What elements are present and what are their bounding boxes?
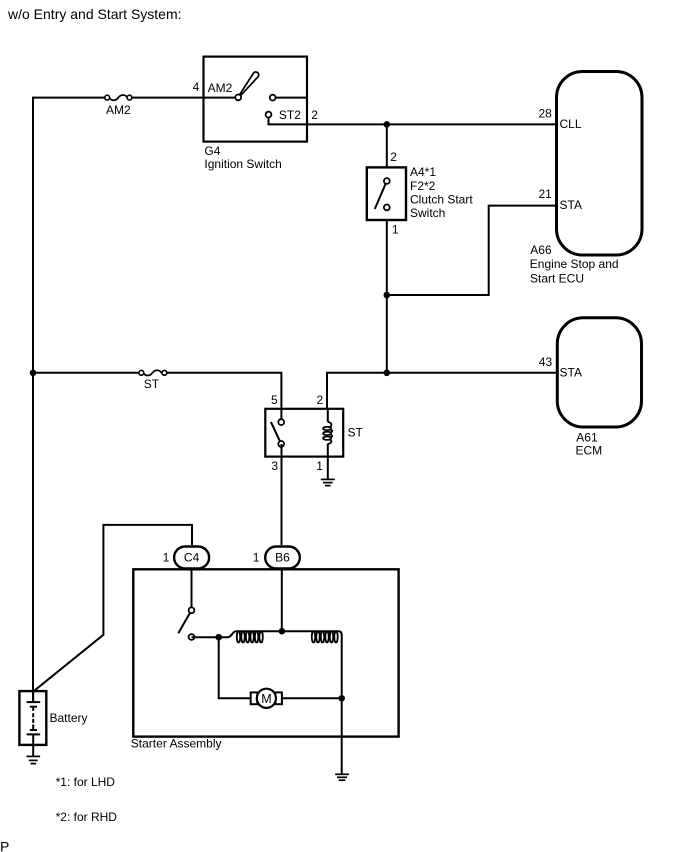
ground (battery): [27, 756, 41, 763]
wire: starter switch to coil junction: [192, 631, 237, 637]
starter switch lever: [178, 610, 191, 633]
svg-text:1: 1: [316, 459, 323, 473]
svg-text:Ignition Switch: Ignition Switch: [204, 157, 281, 171]
svg-text:ECM: ECM: [576, 443, 603, 457]
relay coil feed wire: [327, 409, 329, 422]
svg-text:B6: B6: [275, 551, 290, 565]
svg-text:*1: for LHD: *1: for LHD: [56, 775, 116, 789]
battery: [19, 691, 46, 745]
contact middle: [270, 95, 276, 101]
ground (relay pin1): [321, 479, 335, 485]
svg-text:Start ECU: Start ECU: [530, 271, 584, 285]
contact bottom: [384, 205, 390, 211]
svg-text:P: P: [0, 839, 9, 852]
wire: G4 middle contact to box right edge: [273, 97, 307, 99]
relay lever: [271, 422, 281, 444]
node: junction CLL wire / clutch switch: [384, 121, 391, 128]
svg-text:1: 1: [253, 551, 260, 565]
relay contact pin5: [278, 419, 284, 425]
svg-text:4: 4: [193, 80, 200, 94]
svg-text:28: 28: [539, 106, 553, 120]
svg-text:A61: A61: [576, 430, 598, 444]
wire: B6 connector down to coil junction: [281, 570, 283, 631]
solenoid coil 2: [312, 631, 338, 642]
ECU A66 rounded box: [557, 72, 643, 256]
svg-text:43: 43: [539, 355, 553, 369]
wire: battery bus left vertical + top horizontal to AM2 fuse: [33, 98, 105, 701]
svg-text:w/o Entry and Start System:: w/o Entry and Start System:: [7, 6, 182, 22]
contact ST2: [266, 112, 272, 118]
wire: relay coil to ground: [327, 444, 329, 479]
svg-text:AM2: AM2: [106, 103, 131, 117]
starter relay box: [265, 409, 343, 457]
node: junction motor branch: [215, 634, 222, 641]
contact AM2 (pin4): [235, 95, 241, 101]
wire: ST fuse to relay pin5: [167, 373, 282, 421]
svg-text:C4: C4: [184, 551, 200, 565]
svg-text:ST2: ST2: [279, 108, 301, 122]
svg-text:5: 5: [271, 393, 278, 407]
svg-text:STA: STA: [560, 198, 582, 212]
motor M brushes: [251, 692, 258, 704]
svg-text:2: 2: [317, 393, 324, 407]
svg-text:2: 2: [390, 150, 397, 164]
relay coil ST: [323, 422, 332, 444]
node: junction motor / ground wire: [338, 695, 345, 702]
starter assembly box: [133, 569, 398, 736]
ground (starter): [335, 774, 349, 780]
svg-text:M: M: [261, 692, 271, 706]
fuse ST: [139, 370, 167, 391]
wire: C4 down to starter switch: [191, 570, 193, 610]
svg-text:A4*1: A4*1: [410, 165, 436, 179]
svg-text:F2*2: F2*2: [410, 179, 436, 193]
svg-text:Clutch Start: Clutch Start: [410, 192, 473, 206]
svg-text:AM2: AM2: [208, 81, 233, 95]
svg-text:ST: ST: [348, 425, 364, 439]
switch lever G4: [239, 72, 258, 96]
svg-text:21: 21: [539, 187, 553, 201]
svg-text:1: 1: [392, 223, 399, 237]
svg-text:Switch: Switch: [410, 206, 445, 220]
fuse AM2: [105, 95, 132, 117]
wire: ST2 contact stub to CLL line: [269, 115, 557, 125]
ignition switch G4 box: [204, 57, 308, 142]
svg-text:Battery: Battery: [50, 711, 88, 725]
contact top: [384, 178, 390, 184]
solenoid coil 1: [236, 631, 312, 642]
wire: relay pin2 up and over to A61 STA: [327, 373, 556, 409]
svg-text:*2: for RHD: *2: for RHD: [56, 810, 118, 824]
svg-text:3: 3: [271, 459, 278, 473]
switch lever clutch: [375, 181, 387, 209]
relay contact pin3: [278, 441, 284, 447]
wire: to A66 STA: [387, 206, 556, 295]
svg-text:CLL: CLL: [560, 117, 582, 131]
connector B6: [265, 547, 300, 569]
svg-text:Engine Stop and: Engine Stop and: [530, 257, 619, 271]
wire: motor to coil2 vertical: [282, 697, 343, 699]
node: junction at STA branch: [384, 292, 391, 299]
motor M: [257, 689, 276, 708]
wire: clutch pin1 down to junctions: [386, 220, 388, 373]
wire: relay pin3 down to B6 connector: [281, 444, 283, 545]
ECM A61 rounded box: [557, 318, 641, 427]
wire: coil2 exit down to ground: [312, 631, 342, 773]
starter contact bottom: [189, 634, 195, 640]
wire: AM2 fuse to ignition switch AM2 contact: [132, 97, 238, 99]
clutch start switch box A4/F2: [367, 167, 406, 220]
wire: battery to C4 connector: [34, 525, 193, 691]
wire: ST fuse feed from bus: [33, 372, 139, 374]
node: junction STA wires: [384, 370, 391, 377]
node: junction bus / ST wire: [30, 370, 37, 377]
svg-text:A66: A66: [530, 243, 552, 257]
wire: clutch switch pin2 vertical: [386, 124, 388, 167]
svg-text:2: 2: [311, 108, 318, 122]
svg-text:ST: ST: [144, 377, 160, 391]
starter contact top: [189, 607, 195, 613]
node: junction B6 / coils: [279, 628, 286, 635]
connector C4: [174, 547, 209, 569]
wire: motor loop: [219, 637, 251, 698]
svg-text:STA: STA: [560, 365, 582, 379]
svg-text:1: 1: [163, 551, 170, 565]
svg-text:Starter Assembly: Starter Assembly: [131, 736, 222, 750]
